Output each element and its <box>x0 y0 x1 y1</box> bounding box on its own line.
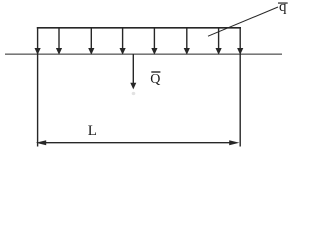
overbar of q <box>278 2 288 4</box>
load arrow 2 stem <box>58 28 60 49</box>
load arrow 8 stem + right side line <box>239 27 241 147</box>
load arrow 4 head <box>120 48 126 55</box>
load arrow 5 head <box>151 48 157 55</box>
load arrow 1 head <box>35 48 41 55</box>
load arrow 8 head <box>237 48 243 55</box>
dimension arrowhead left <box>36 140 46 145</box>
load arrow 3 head <box>88 48 94 55</box>
load arrow 7 head <box>216 48 222 55</box>
resultant Q arrow head <box>130 83 136 90</box>
load arrow 7 stem <box>218 28 220 49</box>
load arrow 6 stem <box>186 28 188 49</box>
dimension line L <box>41 142 236 144</box>
resultant Q arrow stem <box>132 55 134 85</box>
load arrow 5 stem <box>153 28 155 49</box>
distributed load top line <box>37 27 241 29</box>
overbar of Q <box>151 71 160 73</box>
label L <box>88 123 97 140</box>
label Q <box>150 72 160 88</box>
load arrow 2 head <box>56 48 62 55</box>
beam surface line <box>5 53 282 55</box>
dimension arrowhead right <box>229 140 239 145</box>
load arrow 3 stem <box>90 28 92 49</box>
load arrow 4 stem <box>122 28 124 49</box>
label q <box>279 0 287 16</box>
faint jpeg ghost below Q arrow <box>132 92 136 95</box>
leader line to q label <box>208 7 278 36</box>
load arrow 1 stem + left side line <box>37 27 39 147</box>
load arrow 6 head <box>184 48 190 55</box>
